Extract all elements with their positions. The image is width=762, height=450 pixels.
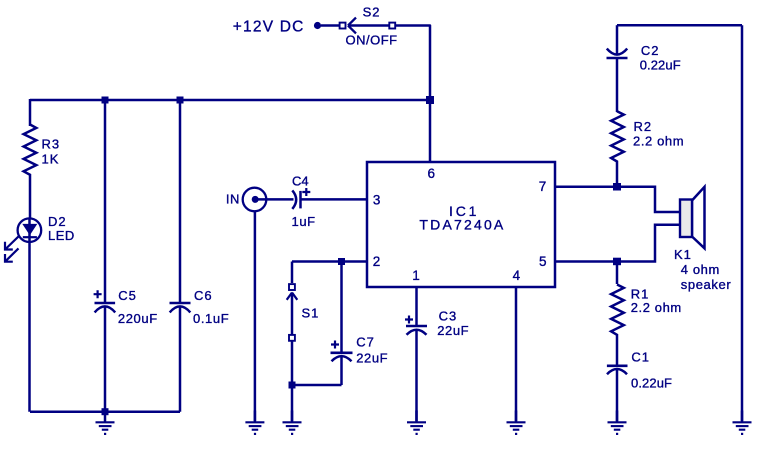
svg-text:S1: S1 xyxy=(302,305,320,320)
svg-text:0.22uF: 0.22uF xyxy=(640,57,681,72)
svg-text:220uF: 220uF xyxy=(118,311,158,326)
svg-text:2.2 ohm: 2.2 ohm xyxy=(633,134,684,149)
svg-text:C7: C7 xyxy=(356,335,375,350)
svg-text:C3: C3 xyxy=(439,309,458,324)
svg-text:speaker: speaker xyxy=(681,277,732,292)
svg-text:LED: LED xyxy=(48,228,75,243)
svg-text:2.2 ohm: 2.2 ohm xyxy=(631,300,682,315)
svg-text:D2: D2 xyxy=(48,214,67,229)
svg-text:1: 1 xyxy=(412,268,421,283)
svg-text:C6: C6 xyxy=(194,288,213,303)
svg-text:C1: C1 xyxy=(631,350,650,365)
svg-text:K1: K1 xyxy=(674,247,692,262)
svg-text:C2: C2 xyxy=(641,43,660,58)
svg-text:C5: C5 xyxy=(118,288,137,303)
svg-text:IN: IN xyxy=(226,192,240,207)
svg-text:ON/OFF: ON/OFF xyxy=(346,33,398,48)
svg-text:6: 6 xyxy=(428,166,437,181)
svg-text:S2: S2 xyxy=(363,5,381,20)
svg-text:4 ohm: 4 ohm xyxy=(681,262,720,277)
svg-text:R2: R2 xyxy=(634,119,653,134)
svg-text:2: 2 xyxy=(373,254,382,269)
svg-text:4: 4 xyxy=(513,268,522,283)
svg-text:5: 5 xyxy=(539,254,548,269)
svg-text:22uF: 22uF xyxy=(437,323,469,338)
svg-text:1K: 1K xyxy=(42,152,60,167)
svg-text:22uF: 22uF xyxy=(356,350,388,365)
svg-text:R3: R3 xyxy=(42,137,61,152)
svg-text:0.22uF: 0.22uF xyxy=(631,375,672,390)
svg-text:3: 3 xyxy=(373,192,382,207)
svg-text:+12V DC: +12V DC xyxy=(233,18,305,35)
svg-text:1uF: 1uF xyxy=(292,214,316,229)
svg-text:0.1uF: 0.1uF xyxy=(193,311,229,326)
svg-text:7: 7 xyxy=(539,179,548,194)
svg-text:TDA7240A: TDA7240A xyxy=(419,216,505,232)
svg-text:C4: C4 xyxy=(292,174,309,189)
